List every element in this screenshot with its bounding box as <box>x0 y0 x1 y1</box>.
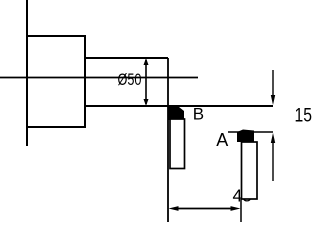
svg-text:Ø50: Ø50 <box>118 70 142 89</box>
dimension 15 upper segment with down arrow <box>271 70 275 105</box>
dimension line Ø50 <box>144 58 149 106</box>
tool A insert <box>237 130 254 143</box>
tool B insert <box>168 106 184 120</box>
tool A shank <box>242 142 258 199</box>
svg-text:A: A <box>216 130 228 150</box>
workpiece top edge <box>85 57 168 59</box>
dimension 15 lower segment with up arrow <box>271 133 275 181</box>
centre line <box>0 77 198 79</box>
dimension 45 arrow line <box>169 206 241 211</box>
chuck body <box>27 36 85 127</box>
chuck face vertical line <box>26 0 28 146</box>
workpiece end face and extension line <box>167 58 169 222</box>
workpiece bottom edge and extension line <box>85 105 273 107</box>
svg-text:15: 15 <box>295 104 313 126</box>
tool A tip extension line <box>228 131 273 133</box>
extension line below tool A shank <box>240 199 242 222</box>
tool B shank <box>170 119 185 169</box>
svg-text:B: B <box>193 104 204 123</box>
